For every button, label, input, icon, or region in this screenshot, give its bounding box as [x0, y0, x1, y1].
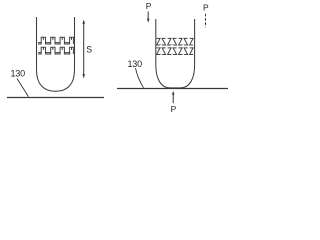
svg-text:P: P	[203, 3, 209, 13]
dimension arrow S (double-headed)	[82, 20, 85, 79]
left surface line	[7, 97, 104, 99]
right surface line	[117, 88, 228, 90]
left pattern row 2 (relaxed crenellated membrane)	[38, 47, 73, 54]
right leader line for 130	[136, 68, 144, 88]
svg-text:S: S	[86, 44, 92, 54]
left leader line for 130	[17, 79, 29, 97]
svg-text:P: P	[171, 104, 177, 114]
top-left pressure arrow P	[147, 12, 150, 23]
svg-text:P: P	[146, 1, 152, 11]
right tube (pressed sensor body)	[156, 19, 195, 88]
top-right dashed leader P	[205, 14, 207, 27]
svg-text:130: 130	[128, 59, 143, 69]
right pattern row 2 (compressed membrane)	[157, 48, 194, 55]
svg-text:130: 130	[11, 69, 26, 79]
right pattern row 1 (compressed membrane)	[157, 38, 194, 45]
left tube (unloaded sensor body)	[37, 17, 75, 91]
left pattern row 1 (relaxed crenellated membrane)	[38, 37, 73, 44]
bottom pressure arrow P	[172, 91, 175, 103]
